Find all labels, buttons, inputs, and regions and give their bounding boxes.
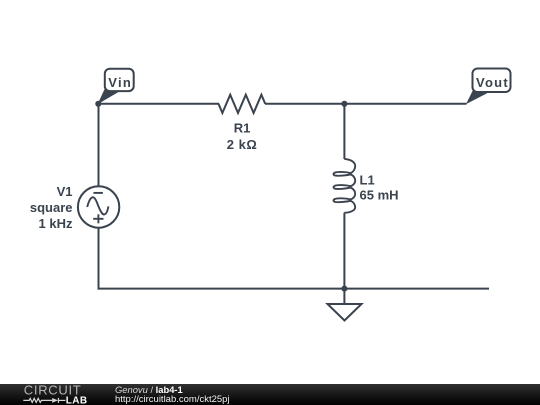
wire left rail lower (V1 to bottom) (98, 228, 100, 290)
svg-text:square: square (30, 200, 73, 215)
inductor L1 (334, 159, 356, 213)
node Vout flag (466, 69, 511, 105)
svg-text:V1: V1 (57, 184, 73, 199)
wire bottom (98, 288, 490, 290)
svg-text:65 mH: 65 mH (360, 188, 399, 203)
wire top left (Vin node to R1) (98, 103, 219, 105)
node Vin junction dot (95, 101, 101, 107)
ground (328, 304, 362, 321)
footer bar (0, 384, 540, 405)
svg-text:1 kHz: 1 kHz (39, 216, 73, 231)
svg-text:LAB: LAB (66, 396, 88, 405)
wire inductor rail upper (343, 104, 345, 159)
resistor R1 (219, 95, 266, 113)
footer logo resistor-diode glyph (23, 398, 65, 403)
svg-text:2 kΩ: 2 kΩ (227, 137, 258, 152)
wire inductor rail lower (343, 213, 345, 289)
wire top right (R1 to Vout) (265, 103, 467, 105)
svg-text:http://circuitlab.com/ckt25pj: http://circuitlab.com/ckt25pj (115, 394, 230, 405)
node L1 top junction dot (341, 101, 347, 107)
svg-text:Vin: Vin (108, 75, 132, 90)
node Vin flag (98, 69, 134, 105)
wire left rail upper (Vin node to V1) (98, 104, 100, 187)
svg-text:L1: L1 (360, 173, 375, 188)
voltage source V1 (78, 186, 119, 227)
svg-text:Vout: Vout (476, 75, 509, 90)
svg-text:R1: R1 (234, 121, 251, 136)
node ground junction dot (341, 286, 347, 292)
wire ground stub (343, 289, 345, 304)
